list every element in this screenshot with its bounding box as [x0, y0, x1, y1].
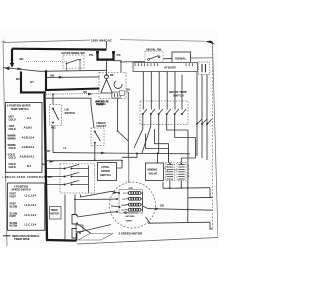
motor feed stubs: [110, 191, 120, 212]
temp switch contacts: [143, 109, 186, 114]
table 4 position: [8, 183, 45, 230]
feed dots: [143, 71, 176, 72]
capacitor C1 bracket: [72, 215, 77, 225]
motor coil start: [128, 208, 141, 211]
timer strip: [133, 63, 198, 72]
timer motor label: [50, 207, 62, 220]
wire pump drop 2: [117, 99, 119, 132]
wires speed block to motor: [65, 191, 112, 240]
motor right wire: [143, 206, 213, 210]
thick bottom corner: [46, 239, 77, 242]
timer dashed border: [212, 43, 214, 228]
wire power drop: [106, 41, 108, 49]
temp switch feeds from timer: [143, 72, 182, 110]
water pump box: [99, 72, 126, 98]
timer cam box: [199, 62, 210, 75]
wire h188 coil bus: [163, 187, 210, 190]
speed switch label box: [98, 163, 117, 181]
legend internal timer wire: [3, 235, 11, 237]
coil wires: [169, 181, 171, 189]
signal box: [172, 52, 191, 63]
motor coil LO: [128, 197, 141, 200]
hook small box: [76, 225, 83, 232]
wire thick main top: [12, 48, 107, 51]
wire h222 bottom: [148, 222, 210, 223]
timer bus: [197, 72, 207, 161]
wire W1 horizontal: [3, 68, 107, 72]
wire signal drop to pump: [120, 62, 122, 72]
motor winding block: [119, 190, 143, 214]
wire plug to pump: [106, 61, 108, 76]
wire v187.5 long: [187, 130, 189, 223]
border arrow left: [5, 66, 10, 70]
lid switch branch: [52, 93, 54, 95]
wire v210 upper: [210, 188, 213, 198]
cold coil: [177, 163, 186, 181]
plug bracket PS: [98, 53, 114, 60]
table 6 position: [6, 103, 43, 173]
line B: [46, 159, 122, 162]
thick main vertical: [44, 93, 46, 95]
flag shape: [78, 234, 113, 241]
motor coil HI: [128, 192, 141, 195]
motor circle M1: [110, 182, 156, 228]
wire pump right: [126, 91, 128, 93]
motor terminals: [118, 192, 120, 194]
mixing valve: [146, 163, 164, 181]
capacitor C2 bracket: [72, 229, 77, 239]
motor collector: [125, 192, 143, 212]
wire thick left vertical: [11, 49, 13, 64]
border frame: [3, 40, 218, 247]
label 120V 60HZ AC: [90, 37, 120, 43]
speed switch block: [60, 164, 95, 193]
temp switch exits: [134, 114, 196, 163]
connector box: [119, 91, 124, 96]
timer bus contacts: [197, 119, 212, 124]
hot coil: [166, 163, 175, 181]
motor coil aux: [128, 203, 141, 206]
corner arrow: [205, 41, 215, 45]
corner tick: [1, 40, 6, 46]
finger faucet branch: [46, 98, 94, 128]
wire plug right to signal: [114, 61, 146, 62]
coil letters: [166, 166, 190, 179]
wire W3: [46, 92, 99, 95]
